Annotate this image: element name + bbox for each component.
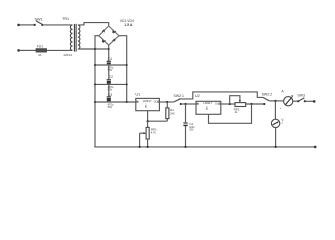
wire node to R1	[148, 120, 168, 122]
U2 right pin wire	[221, 103, 235, 105]
node voltmeter bottom on rail	[275, 146, 277, 148]
wire	[43, 24, 72, 26]
voltmeter bottom lead	[275, 128, 277, 147]
svg-text:4.7k: 4.7k	[151, 131, 157, 135]
svg-text:LM317: LM317	[143, 99, 152, 103]
node RP1 wiper on rail	[139, 146, 141, 148]
svg-text:50V: 50V	[108, 68, 113, 72]
wire	[20, 49, 35, 51]
switch SW2:2 lever	[263, 97, 270, 101]
SW2:2 lower contact	[263, 103, 265, 105]
svg-text:OUT: OUT	[215, 102, 221, 105]
svg-text:50V: 50V	[108, 105, 113, 109]
wire bridge right vertex jog	[119, 36, 127, 102]
output terminal bottom	[314, 146, 317, 149]
switch SW3	[297, 98, 306, 102]
svg-text:ADJ: ADJ	[144, 104, 147, 108]
svg-text:240: 240	[170, 111, 175, 115]
svg-text:U2: U2	[195, 94, 200, 98]
transformer TR1 secondary winding	[78, 25, 80, 49]
U1 pin stubs	[136, 101, 139, 103]
capacitor C3	[107, 97, 111, 101]
svg-text:IN: IN	[136, 100, 139, 103]
svg-text:U1: U1	[135, 92, 140, 96]
wire lower bus into U2	[181, 103, 196, 105]
wire RP2 to SW2:2	[246, 103, 265, 105]
capacitor C4	[183, 104, 187, 147]
wire C1 bottom to C2 top	[108, 65, 110, 80]
node C4 junction	[184, 103, 186, 105]
svg-text:TR1: TR1	[62, 17, 69, 21]
svg-text:OUT: OUT	[154, 100, 160, 103]
svg-text:C2: C2	[109, 75, 113, 79]
wire C2 bottom to C3 top	[108, 84, 110, 97]
regulator U2 box	[196, 101, 221, 114]
svg-text:FU1: FU1	[37, 45, 43, 49]
U2 bottom pin loop	[209, 104, 252, 123]
capacitor C2	[107, 80, 111, 84]
RP2 wiper arrowhead	[239, 100, 241, 102]
voltmeter PV1 lead	[274, 101, 276, 119]
fuse FU1	[34, 49, 46, 52]
svg-text:25V: 25V	[189, 129, 194, 132]
node RP2 left junction	[229, 103, 231, 105]
node U2 gnd loop junction	[250, 103, 252, 105]
ammeter PA1	[284, 97, 293, 106]
U1 right pin wire	[159, 101, 173, 103]
resistor R1	[166, 102, 169, 121]
rail 2	[95, 83, 127, 85]
regulator U1 box	[136, 98, 160, 110]
wire	[46, 49, 72, 51]
node RP1 bottom on rail	[147, 146, 149, 148]
svg-text:C3: C3	[108, 93, 112, 97]
node C4 bottom on rail	[184, 146, 186, 148]
switch SW1	[34, 21, 44, 26]
wire secondary bottom lead	[78, 48, 109, 50]
svg-text:SW3: SW3	[298, 94, 305, 98]
svg-text:50V: 50V	[108, 87, 113, 91]
output wire after SW2:2	[269, 100, 283, 102]
svg-text:=: =	[281, 122, 283, 125]
svg-text:SW1: SW1	[35, 17, 43, 21]
U1 bottom pin wire	[147, 111, 149, 122]
svg-text:SW2:2: SW2:2	[262, 92, 273, 96]
transformer core	[73, 24, 75, 52]
node junction secondary-bottom / left rail	[94, 48, 96, 50]
switch SW2:1 lever	[174, 99, 181, 102]
wire secondary top lead	[78, 23, 109, 26]
svg-text:SW2:1: SW2:1	[174, 94, 185, 98]
node R1 top junction	[166, 101, 168, 103]
svg-text:+: +	[280, 107, 282, 110]
svg-text:ADJ: ADJ	[205, 106, 208, 110]
transformer TR1 primary winding	[70, 25, 72, 50]
node voltmeter tap	[274, 100, 276, 102]
diode VD1	[102, 30, 105, 33]
rail 3 / main bus to U1	[95, 101, 136, 103]
svg-text:C1: C1	[108, 57, 112, 61]
input terminal bottom	[17, 49, 20, 52]
wire	[20, 24, 35, 26]
svg-text:1.5 A: 1.5 A	[124, 23, 133, 27]
svg-text:LM317: LM317	[203, 101, 212, 105]
U2 pin stubs	[196, 103, 199, 105]
bottom rail	[94, 146, 315, 148]
wire ammeter to SW3	[293, 100, 299, 102]
svg-text:2A: 2A	[38, 53, 41, 57]
capacitor C1	[107, 61, 111, 65]
wire bottom vertex stub to C1	[108, 45, 110, 61]
voltmeter PV1	[271, 119, 279, 127]
diode VD2	[112, 30, 116, 33]
node adj junction	[147, 120, 149, 122]
diode VD3	[102, 39, 106, 42]
svg-text:IN: IN	[197, 102, 200, 105]
rail 1	[95, 64, 127, 66]
svg-text:220/12: 220/12	[64, 53, 73, 57]
potentiometer RP2 body	[235, 103, 246, 107]
node junction bottom vertex wire	[108, 48, 110, 50]
bridge rectifier diamond	[99, 26, 119, 45]
lower contact SW2:1	[180, 103, 182, 105]
output terminal top	[313, 100, 316, 103]
ammeter needle	[285, 95, 293, 105]
voltmeter needle	[273, 122, 279, 125]
wire to output terminal	[306, 100, 314, 102]
svg-text:A: A	[281, 90, 284, 94]
potentiometer RP1	[140, 121, 150, 147]
input terminal top	[17, 24, 20, 27]
wire bridge left vertex to left rail	[95, 36, 99, 147]
bypass wire top run	[179, 92, 263, 99]
RP2 wiper loop	[230, 96, 240, 104]
diode VD4	[112, 39, 115, 42]
